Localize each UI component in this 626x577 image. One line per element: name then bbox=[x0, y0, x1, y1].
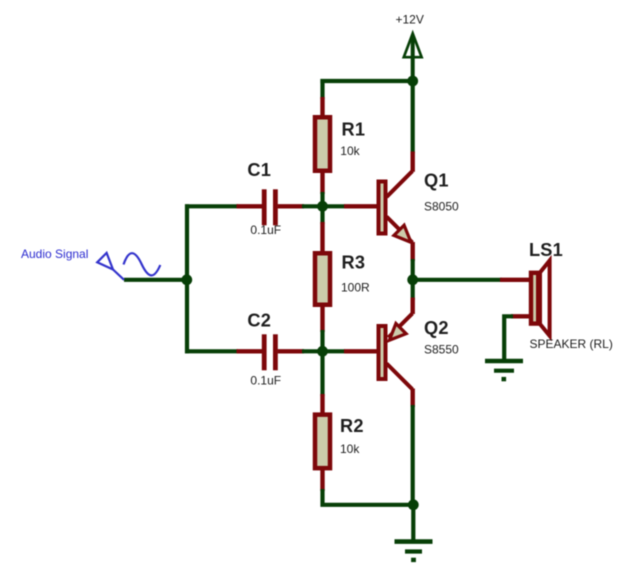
svg-text:10k: 10k bbox=[340, 144, 360, 158]
svg-text:R3: R3 bbox=[342, 253, 366, 273]
wire VCC to R1 bbox=[320, 79, 324, 99]
junction node B bbox=[317, 346, 328, 357]
svg-text:C2: C2 bbox=[247, 310, 271, 330]
wire C2 to node B bbox=[302, 349, 345, 353]
transistor Q2 bbox=[344, 298, 413, 408]
svg-text:+12V: +12V bbox=[396, 13, 424, 27]
svg-text:Q2: Q2 bbox=[424, 318, 449, 338]
resistor R2 bbox=[315, 394, 330, 491]
junction ground node bbox=[408, 499, 419, 510]
svg-text:100R: 100R bbox=[341, 280, 370, 294]
wire output to speaker bbox=[413, 278, 502, 282]
svg-text:10k: 10k bbox=[340, 442, 360, 456]
wire node B to R2 bbox=[320, 349, 324, 396]
audio signal source symbol bbox=[97, 253, 160, 280]
wire C1 left bbox=[185, 204, 238, 208]
wire node A to R3 bbox=[320, 204, 324, 224]
svg-text:R1: R1 bbox=[342, 120, 366, 140]
ground (main) bbox=[395, 542, 433, 563]
transistor Q1 bbox=[344, 152, 413, 262]
resistor R1 bbox=[315, 97, 330, 194]
wire audio signal input bbox=[124, 278, 189, 282]
svg-text:C1: C1 bbox=[247, 160, 271, 180]
svg-text:S8550: S8550 bbox=[424, 343, 459, 357]
svg-text:LS1: LS1 bbox=[529, 240, 563, 260]
wire C2 left bbox=[185, 349, 238, 353]
power symbol +12V bbox=[404, 34, 422, 84]
svg-text:R2: R2 bbox=[340, 416, 364, 436]
svg-text:S8050: S8050 bbox=[424, 200, 459, 214]
wire input column vertical bbox=[185, 204, 189, 353]
ground (speaker) bbox=[485, 361, 523, 381]
junction node A bbox=[317, 201, 328, 212]
resistor R3 bbox=[315, 222, 330, 332]
wire Q1 emitter to output node bbox=[411, 259, 415, 300]
wire Q2 collector to ground node bbox=[411, 405, 415, 506]
svg-text:0.1uF: 0.1uF bbox=[250, 373, 281, 387]
svg-text:Q1: Q1 bbox=[424, 171, 449, 191]
wire VCC top horizontal bbox=[320, 79, 414, 83]
capacitor C1 bbox=[237, 189, 305, 225]
wire R3 to node B bbox=[320, 330, 324, 353]
svg-text:Audio Signal: Audio Signal bbox=[21, 247, 88, 261]
svg-text:SPEAKER (RL): SPEAKER (RL) bbox=[530, 337, 613, 351]
junction VCC node bbox=[407, 76, 418, 87]
wire C1 to node A bbox=[302, 204, 345, 208]
junction input node bbox=[181, 274, 192, 285]
svg-text:0.1uF: 0.1uF bbox=[250, 223, 281, 237]
speaker LS1 bbox=[500, 261, 550, 336]
wire VCC to Q1 collector bbox=[411, 79, 415, 153]
wire ground node down bbox=[411, 502, 415, 541]
wire R1 to node A bbox=[320, 192, 324, 208]
junction output node bbox=[407, 274, 418, 285]
wire R2 to ground run bbox=[323, 489, 416, 505]
wire speaker to ground bbox=[504, 316, 513, 359]
capacitor C2 bbox=[237, 334, 305, 370]
